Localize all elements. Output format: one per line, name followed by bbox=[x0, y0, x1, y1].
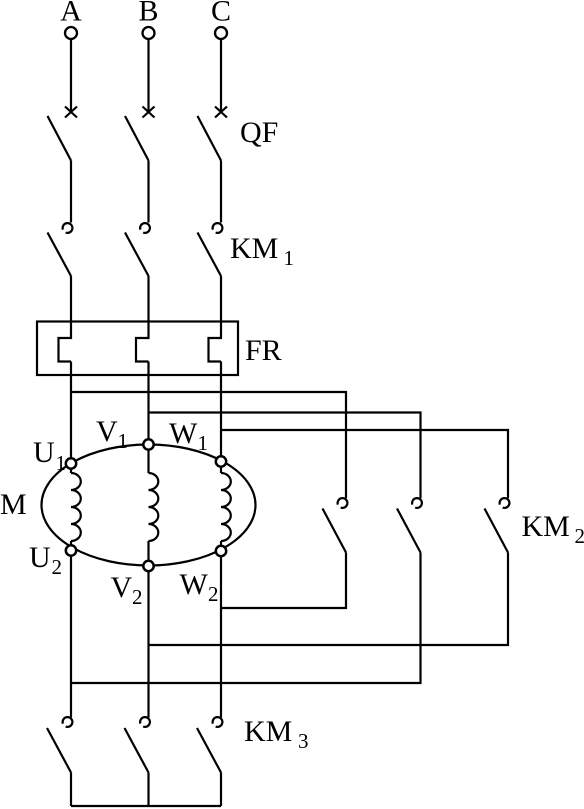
wire KM2 pole 3 to V2 bbox=[149, 553, 509, 646]
svg-text:KM: KM bbox=[230, 232, 278, 265]
terminal A circle bbox=[65, 27, 77, 39]
contactor KM1 pole B blade bbox=[125, 233, 149, 277]
wire KM1 to FR phase B bbox=[147, 276, 149, 322]
motor M stator ellipse bbox=[42, 445, 256, 566]
wire phase B drop bbox=[147, 39, 149, 112]
winding U coil bbox=[71, 473, 81, 541]
node V2 bbox=[143, 561, 153, 571]
svg-text:1: 1 bbox=[198, 431, 209, 455]
contactor KM2 pole 3 blade bbox=[485, 509, 509, 553]
contactor KM3 pole 3 blade bbox=[197, 728, 221, 773]
breaker cross mark phase C bbox=[215, 107, 227, 118]
wire W2 to KM3 bbox=[220, 551, 222, 718]
wire QF to KM1 phase A bbox=[70, 161, 72, 223]
contactor KM2 pole 1 fixed contact bbox=[338, 498, 348, 508]
breaker QF pole C blade bbox=[198, 116, 222, 161]
contactor KM2 pole 2 fixed contact bbox=[412, 498, 422, 508]
svg-text:1: 1 bbox=[118, 429, 129, 453]
svg-text:W: W bbox=[180, 568, 209, 601]
node U2 bbox=[66, 545, 76, 555]
breaker QF pole A blade bbox=[48, 116, 72, 161]
svg-text:3: 3 bbox=[298, 729, 309, 753]
wire phase C branch to KM2 pole 3 bbox=[221, 430, 508, 498]
svg-text:1: 1 bbox=[56, 451, 67, 475]
wire FR to U1 bbox=[70, 362, 72, 465]
svg-text:U: U bbox=[29, 541, 51, 574]
contactor KM3 pole 2 blade bbox=[125, 728, 149, 773]
contactor KM1 pole A fixed contact bbox=[63, 223, 73, 233]
node U1 bbox=[66, 458, 76, 468]
svg-text:1: 1 bbox=[284, 246, 295, 270]
FR heater element phase A bbox=[59, 322, 72, 362]
wire V1 to coil bbox=[147, 445, 149, 474]
svg-text:B: B bbox=[138, 0, 158, 28]
wire KM1 to FR phase C bbox=[220, 276, 222, 322]
wire FR to V1 bbox=[147, 362, 149, 445]
svg-text:2: 2 bbox=[52, 555, 63, 579]
svg-text:A: A bbox=[60, 0, 82, 28]
svg-text:2: 2 bbox=[132, 585, 143, 609]
wire KM1 to FR phase A bbox=[70, 276, 72, 322]
svg-text:M: M bbox=[0, 488, 27, 521]
contactor KM3 pole 3 fixed contact bbox=[213, 717, 223, 727]
svg-text:KM: KM bbox=[522, 510, 570, 543]
contactor KM1 pole C fixed contact bbox=[213, 223, 223, 233]
wire QF to KM1 phase C bbox=[220, 161, 222, 223]
contactor KM1 pole A blade bbox=[48, 233, 72, 277]
FR heater element phase C bbox=[209, 322, 222, 362]
terminal B circle bbox=[143, 27, 155, 39]
node V1 bbox=[143, 439, 153, 449]
breaker cross mark phase B bbox=[143, 107, 155, 118]
wire phase A branch to KM2 pole 1 bbox=[71, 392, 346, 498]
svg-text:W: W bbox=[169, 417, 198, 450]
star point bus wire bbox=[71, 805, 221, 807]
wire phase C drop bbox=[220, 39, 222, 112]
node W2 bbox=[216, 546, 226, 556]
contactor KM2 pole 1 blade bbox=[323, 509, 347, 553]
contactor KM2 pole 3 fixed contact bbox=[500, 498, 510, 508]
svg-text:V: V bbox=[111, 571, 133, 604]
node W1 bbox=[216, 456, 226, 466]
breaker cross mark phase A bbox=[65, 107, 77, 118]
svg-text:FR: FR bbox=[245, 334, 282, 367]
contactor KM3 pole 1 blade bbox=[47, 728, 71, 773]
wire KM2 pole 1 to W2 bbox=[221, 553, 346, 609]
svg-text:V: V bbox=[96, 415, 118, 448]
wire U1 to coil bbox=[70, 464, 72, 474]
wire QF to KM1 phase B bbox=[147, 161, 149, 223]
winding W coil bbox=[221, 473, 231, 541]
svg-text:C: C bbox=[211, 0, 231, 28]
winding V coil bbox=[149, 473, 159, 541]
wire phase B branch to KM2 pole 2 bbox=[149, 413, 421, 499]
wire KM2 pole 2 to U2 bbox=[71, 553, 421, 684]
wire KM3 pole 3 to star bus bbox=[220, 773, 222, 807]
contactor KM1 pole B fixed contact bbox=[140, 223, 150, 233]
wire FR to W1 bbox=[220, 362, 222, 462]
contactor KM3 pole 2 fixed contact bbox=[140, 717, 150, 727]
wire U2 to KM3 bbox=[70, 551, 72, 718]
contactor KM1 pole C blade bbox=[198, 233, 222, 277]
terminal C circle bbox=[215, 27, 227, 39]
wire coil to U2 bbox=[70, 541, 72, 551]
wire KM3 pole 2 to star bus bbox=[147, 773, 149, 807]
wire V2 to KM3 bbox=[147, 566, 149, 718]
breaker QF pole B blade bbox=[125, 116, 149, 161]
wire KM3 pole 1 to star bus bbox=[70, 773, 72, 807]
FR heater element phase B bbox=[136, 322, 149, 362]
svg-text:QF: QF bbox=[240, 116, 278, 149]
wire W1 to coil bbox=[220, 462, 222, 474]
svg-text:2: 2 bbox=[208, 582, 219, 606]
thermal relay FR box bbox=[37, 322, 238, 376]
svg-text:KM: KM bbox=[244, 715, 292, 748]
contactor KM2 pole 2 blade bbox=[397, 509, 421, 553]
svg-text:2: 2 bbox=[575, 524, 584, 548]
svg-text:U: U bbox=[33, 436, 55, 469]
wire phase A drop bbox=[70, 39, 72, 112]
contactor KM3 pole 1 fixed contact bbox=[63, 717, 73, 727]
wire coil to W2 bbox=[220, 541, 222, 551]
wire coil to V2 bbox=[147, 541, 149, 566]
